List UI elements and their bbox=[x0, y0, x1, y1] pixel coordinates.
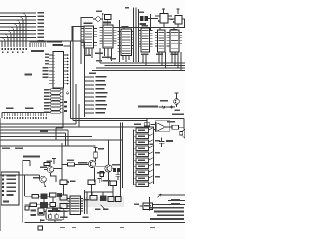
text under divider a bbox=[2, 147, 10, 148]
crystal Y1 bbox=[96, 17, 100, 21]
VCC T symbol Q1 bbox=[52, 159, 56, 165]
IC U18 label bbox=[144, 205, 151, 207]
value label VCC audio bbox=[98, 148, 104, 150]
wire signal stub PH6 bbox=[85, 100, 95, 102]
wire address line BA15 bbox=[0, 37, 36, 39]
capacitor C5 blob bbox=[57, 203, 62, 208]
wire bus above ICs bbox=[116, 27, 185, 29]
wire R13 to Q3 bbox=[95, 158, 97, 161]
scan shading band bbox=[56, 197, 124, 207]
transistor Q4 bbox=[105, 165, 112, 172]
oscillator block X2 dark bbox=[145, 16, 149, 21]
resistor R17 bbox=[44, 163, 50, 166]
wire Q1 collector right bbox=[54, 168, 62, 170]
wire long vertical V3 bbox=[138, 9, 140, 62]
net label BA9 bbox=[38, 16, 45, 18]
wire bus line to DAC a bbox=[71, 119, 185, 130]
value blob under K4 bbox=[40, 219, 45, 221]
resistor R22 bbox=[90, 196, 97, 201]
resistor R19 bbox=[50, 193, 57, 197]
IC U3 ROM body bbox=[103, 25, 113, 48]
IC U15 body bbox=[70, 196, 81, 215]
label under ROM U3 d bbox=[110, 58, 116, 60]
wire Q3 emitter bbox=[94, 167, 96, 182]
resistor R20 bbox=[30, 203, 37, 207]
value label Q5 bbox=[160, 100, 168, 102]
wire keyboard line y175 bbox=[0, 174, 40, 176]
resistor R10 bbox=[136, 182, 149, 187]
resistor R13 bbox=[94, 152, 98, 158]
wire gate drops bbox=[64, 185, 114, 197]
capacitor C6 blob bbox=[52, 209, 58, 213]
IC U7 right pin stubs bbox=[179, 33, 182, 44]
title label IO interface bbox=[23, 156, 40, 158]
wire keyboard rail bbox=[22, 161, 24, 223]
flip-flop U11 body bbox=[175, 16, 182, 25]
wire zigzag r4 bbox=[149, 146, 154, 149]
dark pad marks right of RP bbox=[64, 101, 67, 112]
IC U2 RAM label bbox=[84, 22, 93, 24]
wire zigzag r5 bbox=[149, 152, 154, 155]
resistor R11 bbox=[172, 125, 179, 129]
wire long vertical V1 bbox=[133, 8, 135, 63]
wire signal stub PH0 bbox=[85, 76, 95, 78]
IC U5 interior text rows bbox=[142, 31, 149, 50]
diamond node marker bbox=[66, 92, 69, 95]
transistor Q2 bbox=[40, 176, 46, 182]
value label Q1 bbox=[40, 167, 47, 169]
wire bus line f bbox=[0, 133, 66, 146]
wire drops below U6 bbox=[159, 52, 166, 68]
transistor Q5 internals bbox=[175, 99, 178, 104]
label under RAM U2 bbox=[84, 55, 91, 57]
value label left of U18 bbox=[134, 204, 139, 206]
net label bus row 6 bbox=[150, 218, 184, 220]
wire zigzag r10 bbox=[149, 182, 154, 185]
value label under K3 bbox=[103, 209, 109, 211]
wire signal stub PH4 bbox=[85, 92, 95, 94]
CPU U1 pin ticks interior bbox=[53, 55, 55, 84]
wire DAC outer rail b bbox=[122, 123, 124, 189]
diode D1 bbox=[162, 106, 165, 108]
wire data bus D1 bbox=[105, 65, 186, 67]
value blobs under U15 area bbox=[60, 217, 68, 219]
connector J3 rail bbox=[2, 113, 50, 119]
label under U6 bbox=[156, 54, 163, 56]
flip-flop U11 clock bubble bbox=[173, 21, 175, 23]
gate U13 body bbox=[88, 180, 95, 185]
wire serial row 1 bbox=[153, 201, 186, 205]
net label left of R12 bbox=[134, 124, 141, 126]
flip-flop U11 output wire bbox=[182, 19, 185, 28]
connector P1 pin squares bbox=[2, 175, 4, 197]
value label row4 bbox=[155, 152, 160, 153]
IC U3 ROM label bbox=[103, 22, 111, 24]
IC U15 right pin stubs bbox=[81, 199, 84, 212]
wire address line BA10 bbox=[0, 19, 36, 21]
value blob below rail bbox=[150, 144, 155, 146]
IC U3 right pin stubs bbox=[113, 28, 117, 44]
IC U4 body bbox=[121, 29, 132, 56]
resistor R1 bbox=[136, 128, 149, 133]
net label PH4 bbox=[96, 92, 108, 94]
wire horizontal feed y41 bbox=[72, 27, 84, 42]
IC U2 left pin stubs bbox=[81, 29, 85, 46]
resistor R16 bbox=[100, 172, 104, 177]
net label row 1 bbox=[171, 199, 180, 201]
flip-flop U10 pins bbox=[155, 16, 175, 19]
label under U5 bbox=[141, 54, 149, 56]
label under ROM U3 b bbox=[102, 57, 111, 59]
wire signal stub PH1 bbox=[85, 80, 95, 82]
wire data bus D0 bbox=[100, 62, 185, 64]
resistor pack RP4 bbox=[51, 98, 61, 100]
wire ladder summing rail bbox=[153, 127, 155, 185]
resistor R2 bbox=[136, 134, 149, 139]
wire Q3 to Q4 base bbox=[96, 166, 106, 168]
speaker LS1 bbox=[180, 129, 185, 138]
value label right of U15 bbox=[84, 199, 90, 201]
net label BA10 bbox=[38, 19, 45, 21]
wire DAC left rail bbox=[133, 130, 135, 186]
label above tick row a bbox=[6, 108, 14, 110]
text under divider b bbox=[15, 147, 23, 148]
value labels top bbox=[139, 12, 144, 14]
resistor R3 bbox=[136, 140, 149, 145]
wire long vertical V2 bbox=[135, 8, 137, 63]
net label BA13 bbox=[38, 30, 45, 32]
op-amp U1 CPU body bbox=[53, 52, 64, 89]
junction dot left rail bbox=[61, 164, 62, 165]
IC U5 left pin stubs bbox=[139, 31, 142, 47]
value label Q3 bbox=[78, 162, 88, 164]
connector pin labels row 2 bbox=[2, 51, 24, 53]
part number label left of CPU bbox=[25, 74, 33, 76]
resistor R8 bbox=[136, 170, 149, 175]
resistor pack RP3 bbox=[51, 95, 61, 97]
IC U5 label above bbox=[142, 25, 149, 27]
IC U3 interior text rows bbox=[104, 28, 112, 47]
wire address line BA13 bbox=[0, 30, 36, 32]
net label below bus bbox=[89, 73, 96, 75]
IC U7 left pin stubs bbox=[167, 33, 171, 47]
pin labels CPU upper left bbox=[45, 54, 49, 65]
box under border bbox=[38, 226, 43, 230]
resistor R18 bbox=[32, 195, 39, 199]
net label bus row 3 bbox=[150, 207, 184, 209]
resistor R4 bbox=[136, 146, 149, 151]
CPU left pin stubs bbox=[49, 55, 53, 84]
value label C2 bbox=[166, 140, 173, 142]
net label PH6 bbox=[96, 100, 106, 102]
arrow symbol serial out bbox=[157, 194, 161, 198]
value label above CPU bbox=[53, 44, 64, 46]
wire drops below U7 bbox=[172, 52, 181, 71]
wire zigzag r1 bbox=[149, 128, 154, 131]
IC U5 body bbox=[141, 28, 150, 52]
wire corner into CPU region bbox=[64, 45, 71, 47]
border line left bbox=[0, 118, 2, 231]
resistor R6 bbox=[136, 158, 149, 163]
wire cassette row bbox=[159, 106, 176, 108]
net label BA8 bbox=[38, 12, 45, 14]
wire address line BA11 bbox=[0, 23, 36, 25]
section divider line bbox=[0, 145, 96, 147]
op-amp U8 output wire bbox=[166, 126, 173, 128]
value label Q2 bbox=[33, 177, 40, 179]
resistor R15 bbox=[68, 163, 75, 166]
capacitor C2 bbox=[159, 138, 165, 148]
module M1 pad b bbox=[55, 215, 58, 218]
IC U6 interior text rows bbox=[159, 33, 165, 49]
filter block FB2 bbox=[117, 168, 120, 172]
IC U3 left pin stubs bbox=[100, 28, 104, 44]
transistor Q4 internals bbox=[107, 165, 111, 171]
VCC T above Q5 bbox=[175, 93, 179, 99]
resistor pack RP1 below CPU bbox=[51, 89, 61, 91]
wire zigzag r9 bbox=[149, 176, 154, 179]
value blob mid bottom bbox=[83, 217, 89, 219]
wire left rail audio bbox=[61, 143, 63, 180]
wire Q2 base bbox=[39, 175, 41, 180]
resistor R9 bbox=[136, 176, 149, 181]
value label under R22 bbox=[95, 209, 101, 211]
module M1 wires bbox=[41, 212, 57, 223]
wire data bus D2 bbox=[96, 67, 185, 69]
wire signal stub PH8 bbox=[85, 108, 95, 110]
module M1 pad a bbox=[49, 215, 52, 218]
wire drops below U4 bbox=[123, 56, 129, 63]
CPU right pin arrowheads bbox=[67, 54, 69, 85]
net label cassette bbox=[138, 106, 158, 108]
IC U6 left pin stubs bbox=[155, 33, 158, 47]
value label row8 bbox=[155, 176, 160, 177]
IC U6 body bbox=[158, 30, 166, 52]
label under ROM U3 c bbox=[96, 60, 102, 62]
wire vertical pair right of U15 bbox=[85, 190, 88, 214]
net label PH8 bbox=[96, 108, 107, 110]
wire bottom cluster rail bbox=[24, 175, 26, 196]
wire Q4 collector bbox=[108, 140, 110, 165]
tiny marks under border bbox=[60, 227, 155, 228]
net label PH0 bbox=[96, 76, 107, 78]
IC U17 small body bbox=[60, 204, 67, 209]
connector J2 ticks bbox=[30, 43, 45, 47]
net label PH9 bbox=[96, 112, 106, 114]
wire signal stub PH2 bbox=[85, 84, 95, 86]
relay K3 dark block bbox=[100, 196, 107, 202]
net label PH7 bbox=[96, 104, 108, 106]
net label PH5 bbox=[96, 96, 107, 98]
wire bus line c bbox=[0, 84, 76, 124]
value label FB bbox=[112, 164, 120, 166]
junction dot bbox=[102, 13, 104, 15]
transistor Q5 mid right bbox=[174, 99, 180, 105]
pin label D0 bbox=[43, 67, 49, 69]
resistor R23 bbox=[108, 197, 114, 202]
capacitor C1 top bbox=[105, 15, 112, 20]
gate U14 body bbox=[110, 181, 117, 186]
pin label D2 bbox=[43, 73, 49, 75]
value label SPKR bbox=[167, 121, 175, 123]
value label 1G bbox=[31, 50, 44, 52]
junction dot Q3 collector bbox=[95, 160, 96, 161]
net label bus row 5 bbox=[157, 214, 184, 216]
net label BA14 bbox=[38, 33, 45, 35]
module M1 blob b bbox=[56, 210, 61, 212]
value label right of U12 bbox=[70, 181, 76, 183]
wire zigzag r2 bbox=[149, 134, 154, 137]
net label PH1 bbox=[96, 80, 106, 82]
connector J3 pin ticks bbox=[5, 113, 47, 117]
value blob a bbox=[31, 210, 37, 212]
wire zigzag r3 bbox=[149, 140, 154, 143]
value label Q4 bbox=[97, 172, 105, 174]
IC U7 interior text rows bbox=[171, 33, 178, 49]
connector P1 row labels bbox=[7, 175, 17, 196]
wire Q2 emitter down arrow bbox=[44, 183, 46, 187]
wire signal stub PH7 bbox=[85, 104, 95, 106]
wire Q3 base bbox=[75, 164, 89, 166]
value label row6 bbox=[155, 164, 160, 165]
wire FF bottoms to bus bbox=[164, 23, 178, 28]
wire bus vertical B bbox=[73, 27, 84, 121]
junction dot bus bbox=[146, 120, 147, 121]
flip-flop U10 clock bubble bbox=[158, 20, 160, 22]
module M1 blob a bbox=[48, 210, 53, 212]
pin label rows below CPU bbox=[44, 89, 50, 113]
IC U4 interior text rows bbox=[122, 32, 131, 54]
wire bus line d bbox=[0, 104, 154, 127]
value label near crystal bbox=[96, 11, 102, 13]
connector P1 body bbox=[1, 172, 19, 205]
transistor Q1 internals bbox=[49, 167, 52, 173]
small box on rail bbox=[25, 206, 29, 210]
junction dots summing rail bbox=[153, 133, 154, 170]
pull-up VCC symbol 2 bbox=[177, 9, 180, 14]
relay K1 dark block bbox=[41, 194, 48, 200]
wire zigzag r7 bbox=[149, 164, 154, 167]
wire Q5 emitter down bbox=[176, 104, 178, 107]
resistor pack RP7 bbox=[51, 108, 61, 110]
wire to CPU region bbox=[56, 41, 62, 43]
wire RAM outputs down bbox=[86, 48, 92, 58]
wire R16 down bbox=[101, 177, 103, 183]
net label BA16 bbox=[38, 40, 45, 42]
capacitor C4 blob bbox=[57, 193, 62, 197]
wire Q1 base from left bbox=[44, 169, 47, 171]
wire signal stub PH9 bbox=[85, 112, 95, 114]
IC U5 right pin stubs bbox=[150, 31, 153, 47]
value label R15 bbox=[67, 159, 74, 161]
wire address line BA9 bbox=[0, 16, 36, 18]
wire vertical feed left of RAM bbox=[81, 18, 93, 65]
transistor Q3 bbox=[88, 160, 95, 167]
resistor R24 bbox=[116, 197, 122, 202]
pull-up VCC symbol bbox=[162, 9, 165, 13]
capacitor C3 bbox=[116, 172, 121, 180]
net label PH2 bbox=[96, 84, 107, 86]
wire bus line to DAC b bbox=[73, 120, 147, 122]
label under U17 bbox=[60, 211, 68, 213]
IC U15 interior rows bbox=[71, 199, 80, 212]
wire signal list spine bbox=[85, 42, 186, 118]
resistor R21 bbox=[50, 203, 56, 207]
op-amp U8 input wires bbox=[151, 125, 157, 130]
net label PH3 bbox=[96, 88, 105, 90]
wire U18 left stub bbox=[140, 205, 144, 207]
wire crystal to RAM2 top bbox=[103, 14, 108, 26]
value label mid row bbox=[103, 180, 111, 182]
IC U16 small body bbox=[60, 195, 67, 200]
connector P1 bottom label bbox=[3, 201, 9, 203]
wire ladder left stubs bbox=[134, 130, 137, 184]
net label row 2 bbox=[171, 203, 180, 205]
pin label D1 bbox=[43, 70, 49, 72]
wire zigzag r8 bbox=[149, 170, 154, 173]
IC U7 body bbox=[170, 30, 179, 52]
gate U12 body bbox=[60, 180, 67, 185]
label under ROM U3 a bbox=[95, 53, 103, 55]
label under U7 bbox=[171, 54, 179, 56]
wire diagonal bottom mid bbox=[100, 205, 106, 211]
IC U18 small body bbox=[143, 203, 153, 210]
CPU right pin arrow stubs bbox=[64, 55, 68, 84]
wire bus vertical A bbox=[70, 42, 72, 119]
relay K4 core bbox=[39, 212, 43, 214]
net label BA11 bbox=[38, 23, 45, 25]
transistor Q1 bbox=[47, 166, 53, 172]
net label on bus bbox=[40, 130, 48, 132]
IC U4 right pin stubs bbox=[132, 32, 134, 49]
label above tick row b bbox=[25, 108, 34, 110]
resistor R5 bbox=[136, 152, 149, 157]
op-amp U8 enclosure bbox=[155, 121, 170, 132]
wire bus line g bbox=[0, 136, 92, 138]
wire address line BA12 bbox=[0, 26, 36, 28]
op-amp U8 bbox=[156, 123, 166, 132]
IC U4 label above bbox=[122, 26, 129, 28]
net label right of J2 bbox=[47, 41, 56, 43]
wire drops below U5 bbox=[143, 55, 146, 65]
net label BA15 bbox=[38, 37, 45, 39]
IC U2 RAM body bbox=[84, 26, 94, 48]
junction dot serial bbox=[149, 197, 150, 198]
resistor pack RP2 bbox=[51, 92, 61, 94]
wire bottom mid links bbox=[25, 192, 186, 223]
wire stubs ICs to top bus bbox=[124, 28, 174, 31]
VCC T bottom mid bbox=[98, 179, 102, 184]
RP right pin stubs bbox=[56, 88, 63, 140]
wire rail to R15 bbox=[62, 164, 68, 166]
wire serial row 2 bbox=[168, 204, 185, 206]
flip-flop U10 body bbox=[160, 14, 168, 24]
value label near Q1 top bbox=[47, 160, 53, 162]
oscillator block X1 dark bbox=[140, 16, 144, 21]
value blob b bbox=[31, 214, 37, 216]
tiny top marks bbox=[125, 7, 129, 9]
wire address line BA16 bbox=[0, 41, 85, 47]
connector J2 labels top bbox=[30, 41, 47, 43]
resistor pack RP8 bbox=[51, 111, 61, 113]
value blob between FFs bbox=[170, 19, 173, 21]
net label top right corner bbox=[172, 114, 184, 116]
transistor Q2 internals bbox=[42, 177, 45, 183]
VCC T symbol audio bbox=[94, 148, 98, 153]
value label row2 bbox=[155, 140, 160, 141]
wire bus line h bbox=[0, 139, 122, 141]
wire signal stub PH3 bbox=[85, 88, 95, 90]
